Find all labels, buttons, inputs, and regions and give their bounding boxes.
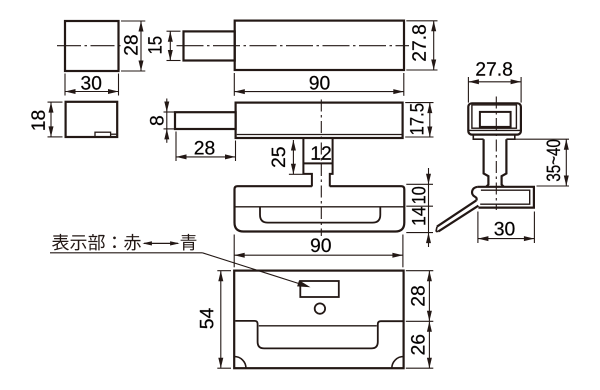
dim 90 extension lines (row1) [233, 73, 235, 96]
dim 8 extension lines [164, 111, 175, 113]
dim 54 line [220, 271, 222, 369]
dim 30 label (view1) [81, 76, 101, 90]
latch body top view outline [235, 21, 404, 70]
cover edge view outline [235, 186, 405, 231]
dim 90 extension lines (lower) [233, 235, 235, 268]
dim 10 14 extension lines [406, 183, 433, 185]
dim 14 label [412, 207, 425, 225]
knob indicator window (side) [480, 112, 511, 127]
dim 30 line (side) [478, 238, 535, 240]
strike box top view outline [65, 21, 119, 71]
dim 25 line [292, 140, 294, 174]
latch bolt stem [303, 139, 332, 187]
handle recess outline [235, 321, 403, 349]
strike box front view outline [66, 102, 118, 137]
annotation text hyojibu aka-ao [52, 234, 69, 251]
knob head outline [468, 103, 521, 134]
angled plate end cap [436, 227, 437, 232]
annotation double arrow [144, 242, 178, 244]
knob head inner face [472, 105, 517, 128]
dim 28 extension lines (view1) [121, 20, 145, 22]
angled plate lower line [439, 206, 479, 232]
latch body cover seam line [237, 134, 402, 136]
dim 25 extension line [289, 173, 303, 175]
indicator window [300, 281, 339, 297]
mounting plate outer [478, 187, 534, 208]
latch pin front view [175, 112, 236, 129]
dim 26 label (right) [411, 335, 425, 355]
dim 90 line (row1) [234, 91, 403, 93]
dim 90 label (lower) [311, 238, 331, 252]
dim 90 label (row1) [310, 76, 330, 90]
dim 28 line (row2) [176, 156, 236, 158]
dim 28 26 extension lines (right) [406, 270, 434, 272]
knob lip line [469, 129, 520, 131]
cover recess edge view [260, 207, 380, 223]
dim 8 label [150, 116, 164, 125]
dim 28 label (view1) [124, 35, 138, 55]
annotation underline [50, 252, 202, 254]
handle recess inner line [259, 325, 377, 327]
dim 30 line (view1) [65, 91, 119, 93]
dim 8 line [166, 99, 168, 143]
dim 27.8 line (side) [468, 81, 521, 83]
dim 28 label (right) [411, 286, 425, 306]
angled plate upper line [437, 200, 476, 226]
dim 27.8 extension lines (side) [467, 77, 469, 103]
dim 28 line (right) [428, 271, 430, 322]
knob skirt [473, 135, 515, 140]
cover edge inner line [235, 206, 405, 208]
cover corner arc left [234, 356, 246, 368]
cover bottom view outline [234, 271, 403, 369]
screw hole [315, 303, 325, 313]
dim 12 label [312, 146, 331, 159]
dim 27.8 extension lines (row1) [406, 20, 437, 22]
dim 28 line (view1) [140, 21, 142, 71]
dim 15 extension lines [167, 30, 181, 32]
dim 35-40 line [565, 139, 567, 186]
side view centerline [495, 97, 497, 211]
dim 25 label [272, 147, 286, 167]
plate bend [472, 187, 478, 201]
dim 18 label [31, 111, 45, 130]
strike box centerline [57, 45, 123, 47]
dim 28 extension lines (row2) [175, 132, 177, 162]
dim 90 line (lower) [234, 254, 403, 256]
dim 27.8 label (row1) [412, 25, 426, 61]
vertical centerline through stem [320, 100, 322, 237]
dim 10 label [412, 187, 426, 203]
dim 17.5 line [429, 103, 431, 137]
dim 15 line [169, 31, 171, 60]
dim 27.8 label (side) [476, 62, 512, 76]
spindle shaft [484, 139, 507, 187]
dim 54 label [200, 308, 213, 328]
latch body front view outline [236, 103, 403, 138]
dim 30 extension lines (side) [477, 212, 479, 244]
latch pin top view [184, 31, 235, 60]
dim 10 14 line [428, 168, 430, 247]
mounting plate inner [480, 190, 530, 204]
dim 28 label (row2) [195, 141, 215, 155]
dim 17.5 extension lines [405, 102, 433, 104]
dim 35-40 label [547, 140, 561, 181]
dim 27.8 line (row1) [433, 21, 435, 70]
dim 18 extension lines [48, 101, 63, 103]
dim 30 extension lines (view1) [64, 74, 66, 96]
dim 15 label [148, 37, 161, 54]
dim 18 line [50, 102, 52, 137]
cover corner arc right [392, 357, 404, 369]
dim 26 line (right) [428, 321, 430, 368]
leader line to window [202, 253, 303, 285]
dim 17.5 label [410, 104, 423, 135]
dim 35-40 extension lines [510, 138, 570, 140]
dim 30 label (side) [495, 222, 515, 236]
row1 centerline [177, 45, 410, 47]
dim 54 extension lines [217, 270, 231, 272]
strike tab detail [95, 132, 111, 137]
